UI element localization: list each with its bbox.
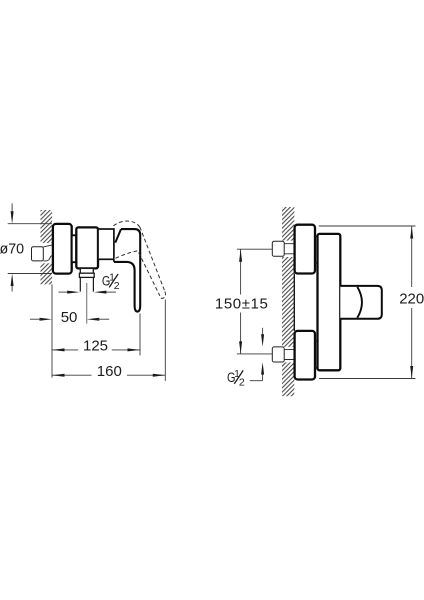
dimension 160 right arrow: [153, 374, 166, 377]
main body right view: [318, 234, 341, 370]
dimension 150±15 extension line bottom: [237, 353, 272, 355]
G1/2 right view lower leader horizontal: [250, 380, 263, 382]
handle cap step: [113, 259, 115, 262]
svg-text:150±15: 150±15: [215, 295, 269, 312]
G1/2 right view down arrow: [261, 334, 264, 347]
G1/2 left view dimension line right: [106, 291, 117, 293]
top neck lines right view: [315, 236, 318, 263]
G1/2 right view up arrow: [261, 362, 264, 375]
supply elbow bottom edge: [43, 256, 52, 261]
G1/2 left view label fraction slash: [109, 274, 118, 287]
dimension 220 top arrow: [410, 226, 413, 239]
dimension 220 line lower segment: [411, 308, 413, 379]
dimension 150±15 extension line top: [237, 248, 272, 250]
handle alternate position (dashed) tip arc: [160, 292, 166, 299]
handle hub right view: [340, 286, 382, 319]
dimension 50 right tail: [97, 318, 109, 320]
wall flange (escutcheon) left view: [53, 224, 72, 274]
bottom supply fitting: [272, 347, 284, 362]
wall hatch left view (lower part): [41, 263, 53, 284]
G1/2 left view dimension line left: [59, 291, 69, 293]
dimension Ø70 line upper segment: [11, 203, 13, 211]
dimension 150±15 line upper segment: [240, 249, 242, 294]
dimension 220 line upper segment: [411, 226, 413, 287]
svg-text:ø70: ø70: [0, 242, 24, 258]
handle hub seam arc: [357, 287, 362, 318]
dimension 125 extension line right: [139, 314, 141, 356]
svg-text:2: 2: [239, 376, 245, 388]
top supply fitting: [272, 241, 284, 256]
dimension Ø70 lower arrow: [11, 274, 14, 287]
top supply fitting neck: [284, 244, 294, 254]
dimension Ø70 upper arrow: [11, 211, 14, 224]
dimension 160 extension line right: [164, 300, 166, 381]
top mounting flange right view: [295, 225, 315, 274]
G1/2 left view left arrow: [67, 291, 80, 294]
dimension Ø70 extension line top: [8, 223, 52, 225]
G1/2 right view label fraction slash: [234, 370, 243, 383]
dimension 160 line right segment: [127, 374, 165, 376]
neck between flange and body: [72, 235, 77, 262]
wall surface line between flanges: [293, 274, 295, 331]
dimension 160 line left segment: [52, 374, 92, 376]
valve body left view: [76, 227, 98, 268]
handle alternate position (dashed) upper edge: [140, 227, 165, 292]
wall hatch right view (upper part): [282, 207, 294, 241]
bottom mounting flange right view: [295, 331, 315, 380]
dimension Ø70 line lower segment: [11, 286, 13, 292]
svg-text:125: 125: [83, 338, 108, 355]
dimension 220 bottom arrow: [410, 366, 413, 379]
dimension 125 line right segment: [112, 349, 140, 351]
dimension 125 line left segment: [52, 349, 78, 351]
supply elbow top edge: [43, 245, 52, 247]
wall surface extension line left view: [51, 284, 53, 377]
outlet adapter lip: [79, 273, 94, 277]
outlet pipe centerline: [86, 283, 88, 324]
outlet pipe: [80, 277, 93, 291]
dimension Ø70 extension line bottom: [8, 273, 52, 275]
dimension 160 left arrow: [52, 374, 65, 377]
handle alternate position (dashed) top arc: [114, 221, 140, 227]
supply elbow nut behind wall: [32, 247, 44, 261]
dimension 150±15 top arrow: [239, 249, 242, 262]
dimension 220 extension line bottom: [319, 378, 416, 380]
G1/2 right view upper leader line: [262, 328, 264, 335]
dimension 50 left arrow: [40, 318, 53, 321]
svg-text:160: 160: [97, 363, 122, 380]
dimension 220 extension line top: [319, 225, 416, 227]
handle cap seam: [115, 229, 121, 243]
handle lever (solid position): [114, 229, 140, 312]
svg-text:220: 220: [399, 291, 424, 308]
wall hatch right view (lower part): [282, 362, 294, 396]
dimension 150±15 line lower segment: [240, 313, 242, 354]
handle alternate position (dashed) lower edge: [116, 251, 160, 296]
wall hatch left view (upper part): [41, 210, 53, 243]
handle escutcheon section: [98, 229, 114, 259]
wall hatch right view (middle part): [282, 257, 294, 347]
dimension 125 right arrow: [128, 348, 141, 351]
G1/2 right view lower leader vertical: [262, 374, 264, 380]
bottom supply fitting neck: [284, 349, 294, 359]
svg-text:2: 2: [114, 280, 120, 292]
dimension 50 left tail: [30, 318, 41, 320]
dimension 150±15 bottom arrow: [239, 341, 242, 354]
outlet adapter upper: [80, 268, 93, 273]
svg-text:50: 50: [61, 309, 78, 326]
dimension 125 left arrow: [52, 348, 65, 351]
dimension 50 right arrow: [87, 318, 100, 321]
G1/2 left view right arrow: [94, 291, 107, 294]
bottom neck lines right view: [315, 341, 318, 368]
